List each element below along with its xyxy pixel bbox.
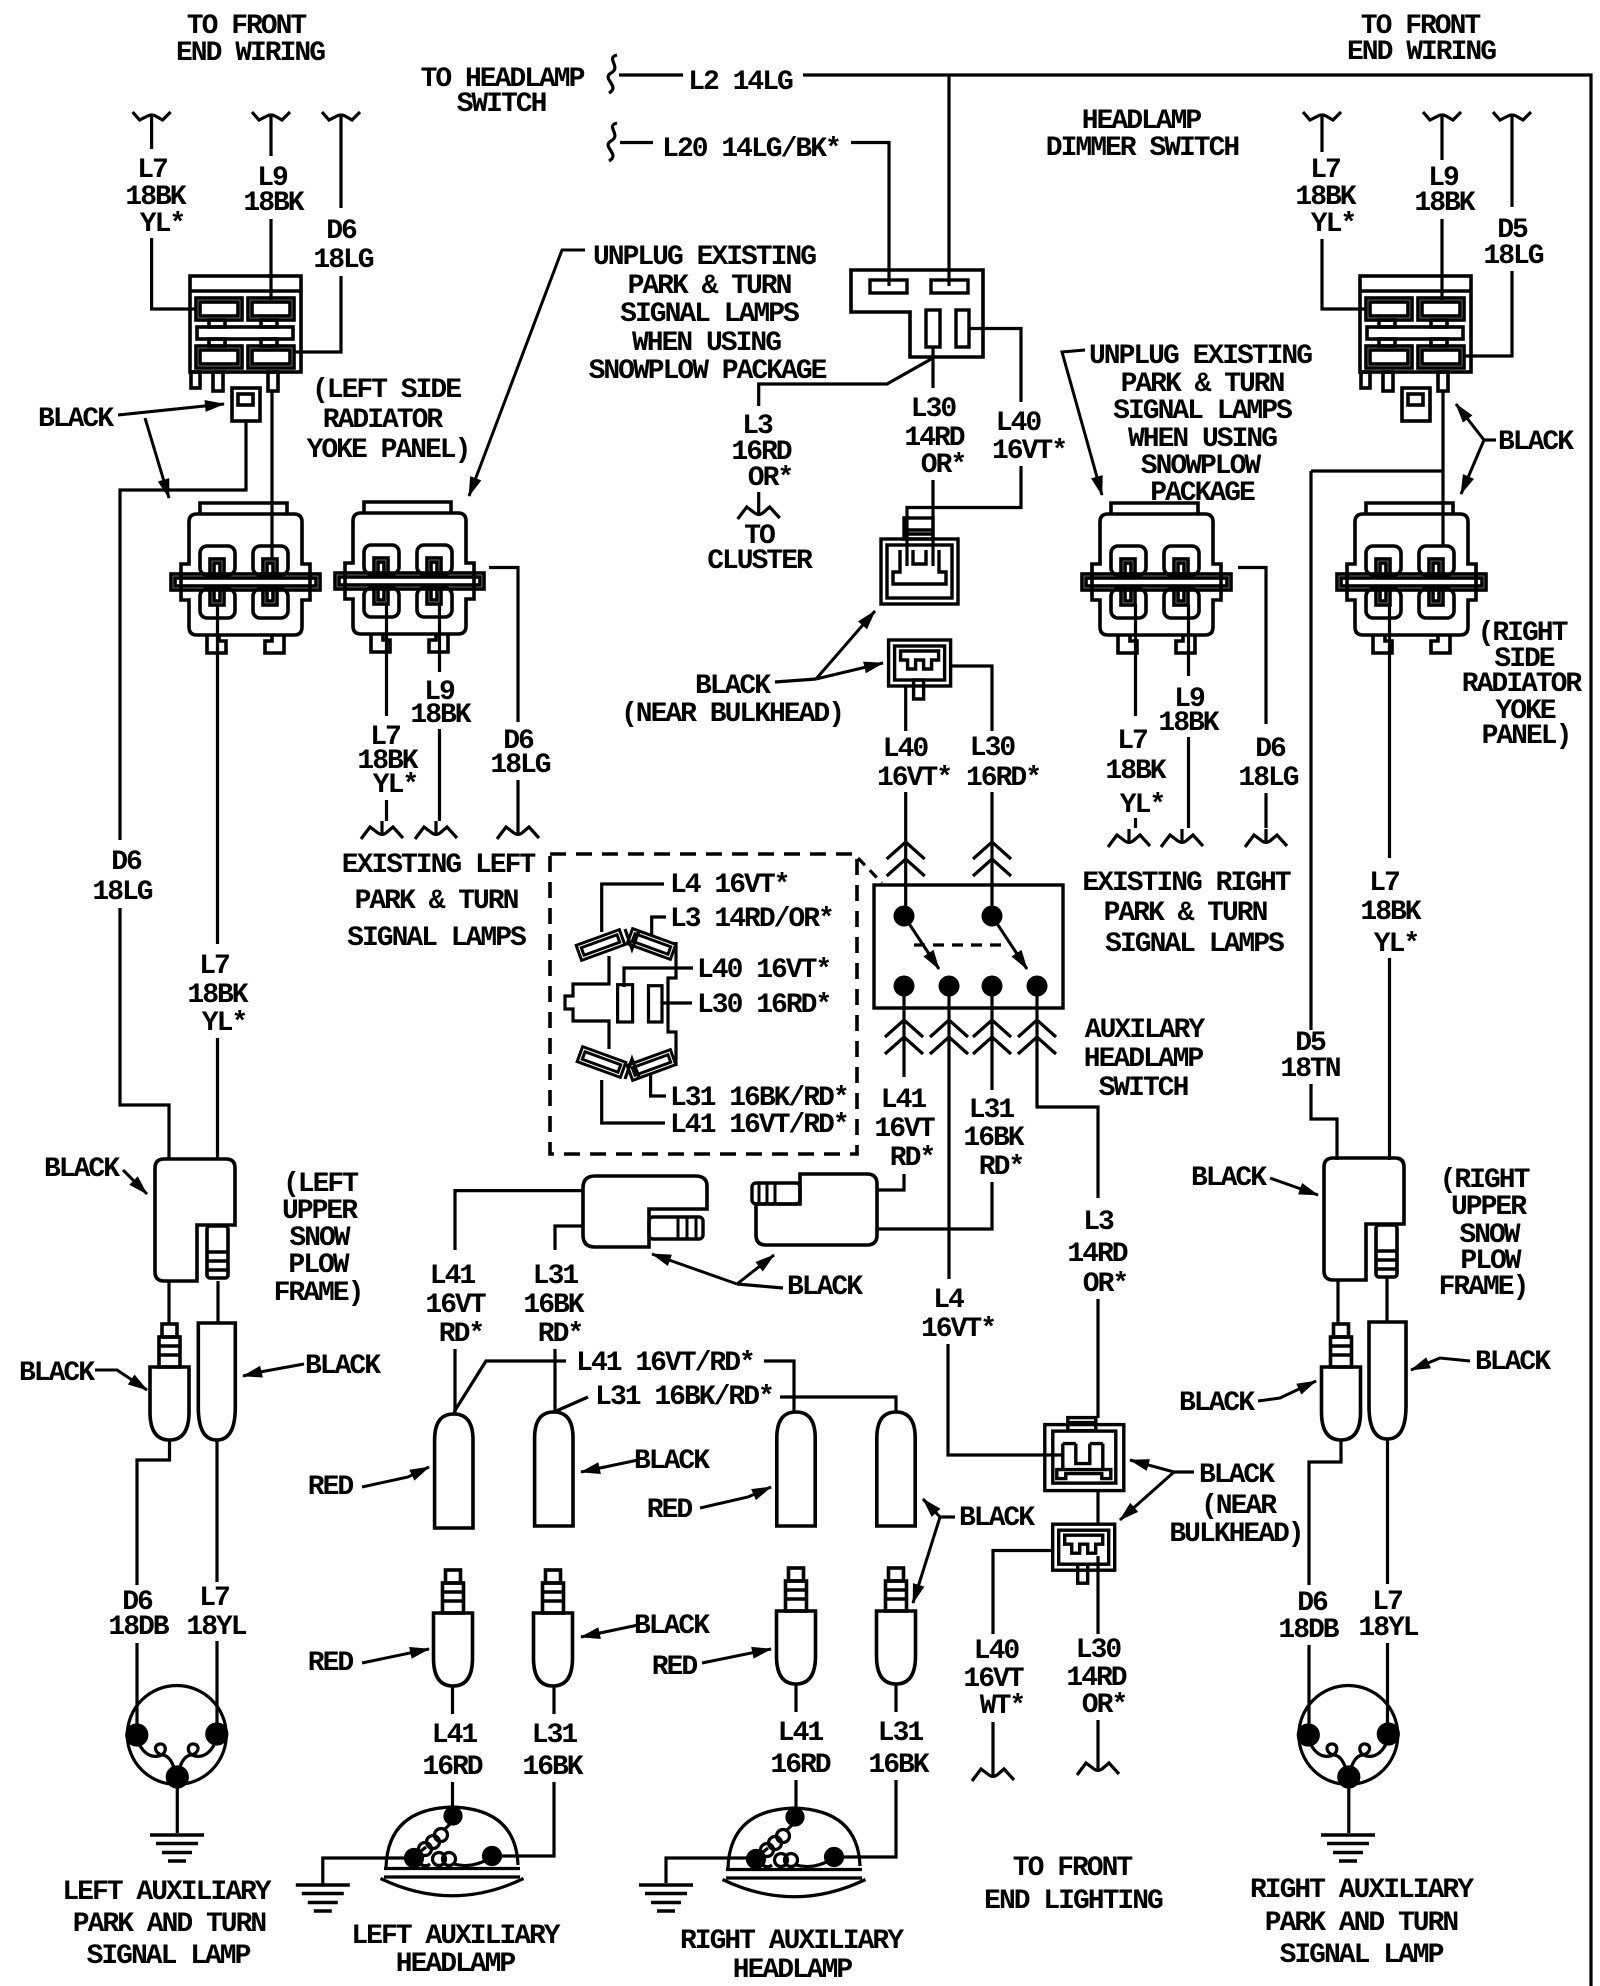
- wire to left female terminal: [216, 1281, 219, 1323]
- terminal female (right park/turn lamp L7): [1369, 1322, 1406, 1439]
- terminal blade L41 (tilted): [577, 1047, 626, 1078]
- svg-text:16BK: 16BK: [523, 1290, 584, 1321]
- svg-text:PLOW: PLOW: [288, 1250, 349, 1281]
- svg-text:18LG: 18LG: [1238, 763, 1298, 794]
- wire L2 14LG (left segment): [619, 73, 683, 76]
- connector plug P1 (snow plow harness, left): [583, 1176, 707, 1247]
- wire L7 stub: [1134, 818, 1137, 828]
- wire L9 into right bulkhead connector: [1440, 219, 1443, 300]
- wire L31 to plug P2: [877, 1182, 992, 1229]
- arrow BLACK to plug P2: [737, 1255, 774, 1284]
- svg-text:L41: L41: [778, 1718, 824, 1749]
- svg-text:PARK & TURN: PARK & TURN: [628, 271, 791, 302]
- arrow BLACK to plug M2: [581, 1625, 638, 1637]
- svg-text:18LG: 18LG: [92, 877, 152, 908]
- ground (right auxiliary headlamp): [639, 1885, 693, 1911]
- svg-text:HEADLAMP: HEADLAMP: [1084, 1044, 1204, 1075]
- wire L7 18YL: [215, 1440, 218, 1582]
- switch arm left: [904, 916, 939, 969]
- svg-text:L31 16BK/RD*: L31 16BK/RD*: [595, 1382, 773, 1413]
- in-line connector chevrons (L31): [973, 1020, 1011, 1054]
- wire L31 16BK/RD* (branch left): [554, 1397, 588, 1412]
- svg-text:RED: RED: [308, 1472, 354, 1503]
- wire L41 16VT RD* from switch: [902, 996, 905, 1077]
- wire L9 18BK (top left stub): [269, 128, 272, 156]
- svg-text:18YL: 18YL: [1358, 1613, 1418, 1644]
- right auxiliary park and turn signal lamp: [1298, 1686, 1398, 1788]
- connector (right upper snow plow frame): [1324, 1158, 1404, 1280]
- ground (right park/turn lamp): [1321, 1835, 1375, 1861]
- svg-text:(NEAR: (NEAR: [1201, 1491, 1277, 1522]
- svg-text:BLACK: BLACK: [695, 671, 771, 702]
- svg-text:SIGNAL LAMPS: SIGNAL LAMPS: [1113, 396, 1292, 427]
- svg-text:SWITCH: SWITCH: [1099, 1073, 1188, 1104]
- svg-text:OR*: OR*: [1082, 1690, 1126, 1721]
- connector near bulkhead (bottom lower): [1053, 1524, 1115, 1583]
- wire L3 down to near-bulkhead connector: [1096, 1299, 1099, 1418]
- svg-text:HEADLAMP: HEADLAMP: [733, 1955, 853, 1986]
- svg-text:D6: D6: [111, 847, 142, 878]
- wire right lamp to ground: [1347, 1787, 1350, 1833]
- svg-text:18BK: 18BK: [410, 700, 471, 731]
- svg-text:L7: L7: [1369, 868, 1399, 899]
- terminal blade L4 (tilted): [576, 930, 625, 961]
- svg-text:SWITCH: SWITCH: [457, 89, 546, 120]
- svg-text:PARK & TURN: PARK & TURN: [355, 886, 518, 917]
- svg-text:TO FRONT: TO FRONT: [1013, 1853, 1133, 1884]
- terminal male (left park/turn lamp D6): [150, 1324, 189, 1440]
- leader L31 16BK/RD*: [651, 1074, 666, 1096]
- connector face housing outline: [565, 929, 676, 1079]
- svg-text:16RD*: 16RD*: [966, 763, 1040, 794]
- svg-text:18BK: 18BK: [1158, 708, 1219, 739]
- wire D5 18TN down: [1309, 471, 1312, 1030]
- connector (left upper snow plow frame): [155, 1159, 235, 1281]
- svg-text:L31: L31: [969, 1095, 1015, 1126]
- wire-break (existing left lamps D6): [497, 821, 539, 839]
- svg-text:BLACK: BLACK: [44, 1154, 120, 1185]
- wire right headlamp to ground: [666, 1858, 754, 1883]
- wire L40 into near-bulkhead connector: [907, 466, 1021, 566]
- svg-text:BLACK: BLACK: [1475, 1347, 1551, 1378]
- svg-text:(NEAR BULKHEAD): (NEAR BULKHEAD): [621, 699, 843, 730]
- svg-text:L7: L7: [1117, 726, 1147, 757]
- wire L41 16VT/RD* (branch right): [764, 1361, 794, 1412]
- wire-break symbol (to front end wiring, L9): [252, 112, 290, 128]
- wire L30 stub: [1096, 1720, 1099, 1757]
- terminal socket S2 (L31 left): [535, 1412, 573, 1526]
- wire L41 to socket S1: [453, 1349, 456, 1414]
- svg-text:YL*: YL*: [1120, 790, 1164, 821]
- wire L9 stub: [438, 729, 441, 821]
- wire L41 16VT/RD* (branch left): [454, 1361, 566, 1412]
- svg-text:YL*: YL*: [140, 209, 184, 240]
- leader BLACK near bulkhead (bottom): [1174, 1470, 1194, 1473]
- wire-break symbol (to cluster): [738, 501, 780, 519]
- wire D6 stub: [1264, 793, 1267, 828]
- wire-break (to front end lighting L40): [972, 1763, 1014, 1781]
- terminal socket S4 (L31 right): [877, 1412, 915, 1526]
- left auxiliary park and turn signal lamp: [127, 1686, 227, 1788]
- wire L41 16RD to right headlamp: [794, 1780, 797, 1817]
- arrow RED to plug M3: [702, 1649, 771, 1663]
- wire-break (to front end lighting L30): [1077, 1757, 1119, 1775]
- svg-text:SIGNAL LAMPS: SIGNAL LAMPS: [1105, 929, 1284, 960]
- wire L30 into near-bulkhead connector: [931, 480, 934, 566]
- svg-text:L30: L30: [970, 733, 1016, 764]
- wire L7 stub: [385, 800, 388, 821]
- svg-text:OR*: OR*: [1083, 1269, 1127, 1300]
- right auxiliary headlamp: [723, 1808, 866, 1897]
- svg-text:RD*: RD*: [538, 1319, 582, 1350]
- wire M2 lead: [552, 1686, 555, 1714]
- wire L31 16BK RD* from P1: [555, 1226, 583, 1250]
- svg-text:L40: L40: [883, 734, 929, 765]
- svg-text:BLACK: BLACK: [1191, 1163, 1267, 1194]
- wire L4 to near-bulkhead connector (bottom): [948, 1344, 1062, 1455]
- wire L9 18BK into bulkhead connector: [269, 219, 272, 300]
- leader L41 16VT/RD*: [602, 1080, 665, 1123]
- arrow RED to socket S1: [362, 1467, 429, 1487]
- terminal slot L40: [618, 985, 633, 1022]
- arrow BLACK to socket S4: [923, 1499, 940, 1517]
- arrow BLACK to right snow plow connector: [1270, 1178, 1318, 1195]
- arrow BLACK to left female terminal: [243, 1364, 304, 1376]
- svg-text:CLUSTER: CLUSTER: [707, 546, 813, 577]
- svg-text:L30: L30: [911, 394, 957, 425]
- svg-text:RD*: RD*: [439, 1319, 483, 1350]
- wire D6 18DB to right lamp: [1307, 1645, 1310, 1735]
- svg-text:BLACK: BLACK: [38, 404, 114, 435]
- svg-text:RED: RED: [647, 1495, 693, 1526]
- wire L41 16RD to left headlamp: [451, 1782, 454, 1816]
- in-line connector chevrons (L3): [1018, 1020, 1056, 1054]
- wire D6 stub: [516, 780, 519, 821]
- svg-text:PARK & TURN: PARK & TURN: [1104, 898, 1267, 929]
- svg-text:18BK: 18BK: [1360, 897, 1421, 928]
- wire-break squiggle L2: [608, 55, 617, 93]
- svg-text:18LG: 18LG: [1483, 241, 1543, 272]
- wire to right male terminal: [1336, 1281, 1339, 1324]
- svg-text:L41 16VT/RD*: L41 16VT/RD*: [670, 1110, 848, 1141]
- svg-text:END WIRING: END WIRING: [1347, 37, 1496, 68]
- svg-text:L41: L41: [430, 1261, 476, 1292]
- svg-text:AUXILARY: AUXILARY: [1085, 1015, 1206, 1046]
- in-line connector chevrons (L4): [930, 1020, 968, 1054]
- svg-text:BLACK: BLACK: [787, 1272, 863, 1303]
- switch arm right: [992, 916, 1027, 969]
- wire L7 18BK YL* to left snow plow frame connector: [216, 1038, 219, 1160]
- connector C1 (left side radiator yoke panel): [171, 503, 320, 653]
- terminal socket S1 (L41 left): [435, 1414, 473, 1528]
- wire-break symbol (to front end wiring, D6): [322, 112, 360, 128]
- arrow to near-bulkhead connector upper: [816, 611, 875, 679]
- arrow BLACK to left male terminal: [95, 1370, 147, 1390]
- wire D6 18LG into bulkhead connector: [294, 276, 341, 352]
- svg-text:LEFT AUXILIARY: LEFT AUXILIARY: [62, 1877, 271, 1908]
- arrow BLACK to socket S2: [581, 1460, 638, 1472]
- svg-text:L4: L4: [933, 1285, 964, 1316]
- svg-text:HEADLAMP: HEADLAMP: [396, 1949, 516, 1980]
- wire D6 18DB to lamp: [135, 1643, 138, 1735]
- arrow BLACK to plug P1: [652, 1254, 737, 1284]
- wire M3 lead: [794, 1684, 797, 1712]
- svg-text:FRAME): FRAME): [274, 1278, 363, 1309]
- svg-text:16VT: 16VT: [425, 1290, 485, 1321]
- switch contact (lower L4): [939, 976, 960, 997]
- terminal blade L31 (tilted): [627, 1050, 676, 1081]
- svg-text:LEFT AUXILIARY: LEFT AUXILIARY: [351, 1921, 560, 1952]
- svg-text:L40: L40: [996, 408, 1042, 439]
- svg-text:EXISTING RIGHT: EXISTING RIGHT: [1082, 868, 1290, 899]
- switch contact (lower L3): [1027, 976, 1048, 997]
- svg-text:16RD: 16RD: [770, 1750, 830, 1781]
- svg-text:16VT*: 16VT*: [921, 1314, 995, 1345]
- svg-text:SNOWPLOW PACKAGE: SNOWPLOW PACKAGE: [589, 356, 827, 387]
- connector C3 (existing right park & turn signal lamps): [1082, 503, 1231, 653]
- connector plug P2 (snow plow harness, right): [756, 1174, 877, 1245]
- svg-text:OR*: OR*: [748, 463, 792, 494]
- wire L31 16BK/RD* (branch right): [780, 1397, 896, 1412]
- wire L3 to cluster stub: [757, 492, 760, 502]
- leader L4 16VT*: [602, 884, 664, 932]
- svg-text:RD*: RD*: [979, 1152, 1023, 1183]
- in-line connector chevrons (L30): [973, 842, 1011, 876]
- svg-text:SIGNAL LAMP: SIGNAL LAMP: [87, 1941, 251, 1972]
- terminal slot L30: [649, 986, 663, 1022]
- svg-text:BLACK: BLACK: [959, 1503, 1035, 1534]
- svg-text:L31: L31: [532, 1720, 578, 1751]
- wire-break (existing right lamps D6): [1245, 829, 1287, 847]
- switch dashed link: [914, 943, 1002, 946]
- terminal plug M2 (L31 16BK left): [534, 1570, 573, 1686]
- svg-text:18LG: 18LG: [313, 245, 373, 276]
- connector C4 (right side radiator yoke panel): [1337, 503, 1486, 653]
- svg-text:UNPLUG EXISTING: UNPLUG EXISTING: [1089, 341, 1312, 372]
- svg-text:L31: L31: [533, 1261, 579, 1292]
- bulkhead connector (right front end wiring): [1360, 276, 1471, 421]
- svg-text:DIMMER SWITCH: DIMMER SWITCH: [1046, 133, 1239, 164]
- svg-text:SIGNAL LAMP: SIGNAL LAMP: [1280, 1940, 1444, 1971]
- terminal plug M4 (L31 16BK right): [877, 1568, 916, 1684]
- svg-text:L4 16VT*: L4 16VT*: [670, 870, 788, 901]
- switch contact (lower L31): [982, 976, 1003, 997]
- leader BLACK near bulkhead: [775, 679, 816, 682]
- wire L40 16VT WT* from lower connector: [993, 1551, 1053, 1635]
- in-line connector chevrons (L41): [885, 1020, 923, 1054]
- arrow BLACK to right bulkhead sub-connector: [1456, 404, 1484, 440]
- wire L31 16BK to left headlamp: [493, 1782, 554, 1856]
- svg-text:16VT: 16VT: [874, 1114, 934, 1145]
- svg-text:SIGNAL LAMPS: SIGNAL LAMPS: [347, 923, 526, 954]
- wire L7 18BK YL* from C2: [385, 604, 388, 716]
- detail view dashed box (aux headlamp switch connector face): [550, 854, 857, 1154]
- svg-text:L30: L30: [1076, 1635, 1122, 1666]
- wire L3 between connectors: [1096, 1490, 1099, 1524]
- wire L7 18BK YL* into bulkhead connector: [152, 238, 196, 309]
- wire from right bulkhead tab to C4: [1441, 391, 1444, 546]
- arrow RED to plug M1: [362, 1649, 429, 1663]
- svg-text:SIGNAL LAMPS: SIGNAL LAMPS: [620, 299, 799, 330]
- svg-text:16VT*: 16VT*: [992, 436, 1066, 467]
- switch contact (upper L40): [894, 906, 915, 927]
- svg-text:RED: RED: [308, 1648, 354, 1679]
- wire L31 16BK to right headlamp: [836, 1780, 896, 1857]
- svg-text:L3: L3: [1083, 1207, 1114, 1238]
- wire L7 18BK YL* from C3: [1134, 604, 1137, 716]
- svg-text:(LEFT SIDE: (LEFT SIDE: [312, 375, 461, 406]
- svg-text:L2 14LG: L2 14LG: [688, 67, 793, 98]
- wire L20 14LG/BK* (left segment): [620, 141, 653, 144]
- svg-text:18LG: 18LG: [490, 750, 550, 781]
- svg-text:L31: L31: [878, 1718, 924, 1749]
- svg-text:L20 14LG/BK*: L20 14LG/BK*: [662, 134, 840, 165]
- svg-text:FRAME): FRAME): [1439, 1272, 1528, 1303]
- svg-text:18TN: 18TN: [1280, 1054, 1339, 1085]
- arrow BLACK to right female terminal: [1411, 1358, 1470, 1370]
- terminal blade L3 (tilted): [627, 929, 676, 960]
- wire L2 14LG to right edge and down: [803, 75, 1591, 1986]
- connector near bulkhead (lower): [889, 640, 951, 699]
- wire L7 18BK YL* from C1 down: [216, 604, 219, 944]
- svg-text:EXISTING LEFT: EXISTING LEFT: [342, 850, 536, 881]
- svg-text:18BK: 18BK: [187, 980, 248, 1011]
- bulkhead connector (left front end wiring): [190, 276, 301, 421]
- wire L9 stub: [1187, 737, 1190, 828]
- svg-text:PANEL): PANEL): [1482, 721, 1571, 752]
- svg-text:L3 14RD/OR*: L3 14RD/OR*: [670, 904, 833, 935]
- wire M4 lead: [894, 1684, 897, 1712]
- svg-text:16BK: 16BK: [963, 1123, 1024, 1154]
- wire L30 14RD OR* from dimmer: [931, 347, 934, 388]
- wire-break symbol (right, L9): [1423, 112, 1461, 128]
- arrow BLACK to plug M4: [913, 1517, 940, 1603]
- connector near bulkhead (bottom upper): [1045, 1418, 1124, 1491]
- connector near bulkhead (upper): [881, 518, 958, 604]
- wire L41 to plug P2: [877, 1174, 904, 1190]
- terminal female (left park/turn lamp L7): [198, 1323, 235, 1440]
- svg-text:L41 16VT/RD*: L41 16VT/RD*: [576, 1348, 754, 1379]
- dashed leader to aux headlamp switch: [858, 858, 882, 883]
- leader BLACK plug pair: [737, 1284, 783, 1288]
- wire L7 18YL to right lamp: [1386, 1643, 1389, 1735]
- wire D5 18TN to right snow plow frame connector: [1311, 1084, 1337, 1160]
- leader BLACK right bulkhead: [1484, 438, 1496, 441]
- wire L30 to aux switch: [990, 792, 993, 916]
- wire L2 14LG branch into dimmer switch: [947, 75, 950, 286]
- svg-text:L41: L41: [432, 1720, 478, 1751]
- svg-text:PARK AND TURN: PARK AND TURN: [1265, 1908, 1458, 1939]
- svg-text:L40: L40: [974, 1636, 1020, 1667]
- wire L3 16RD OR* from dimmer: [759, 358, 933, 406]
- wire L7 to right snow plow frame connector: [1388, 958, 1391, 1160]
- svg-text:RIGHT AUXILIARY: RIGHT AUXILIARY: [1250, 1875, 1474, 1906]
- wire-break squiggle L20: [608, 123, 617, 161]
- wire L7 18YL (right): [1386, 1439, 1389, 1584]
- wire L40 to aux switch: [904, 792, 907, 916]
- svg-text:RED: RED: [652, 1652, 698, 1683]
- svg-text:YOKE PANEL): YOKE PANEL): [307, 435, 470, 466]
- wire L20 14LG/BK* into dimmer switch: [851, 143, 889, 287]
- wire L41 16VT RD* from P1: [455, 1191, 583, 1250]
- svg-text:18DB: 18DB: [108, 1612, 169, 1643]
- ground (left auxiliary headlamp): [296, 1885, 350, 1911]
- arrow to bottom lower connector: [1120, 1472, 1174, 1520]
- svg-text:BLACK: BLACK: [1199, 1460, 1275, 1491]
- svg-text:18BK: 18BK: [1414, 188, 1475, 219]
- wire L7 18BK YL* from C4: [1388, 604, 1391, 858]
- leader L30 16RD*: [662, 1001, 692, 1004]
- wire D6 18LG from C2: [489, 568, 518, 723]
- connector C2 (existing left park & turn signal lamps): [335, 502, 484, 652]
- svg-text:RADIATOR: RADIATOR: [323, 405, 444, 436]
- wire L7 (right stub): [1320, 128, 1323, 152]
- arrow BLACK to right male terminal: [1258, 1381, 1316, 1401]
- arrow to near-bulkhead connector lower: [816, 663, 883, 679]
- wire L7 18BK YL* (top left stub): [150, 128, 153, 149]
- switch contact (upper L30): [982, 906, 1003, 927]
- svg-text:UPPER: UPPER: [1451, 1192, 1527, 1223]
- wire L7 into right bulkhead connector: [1322, 239, 1366, 309]
- arrow RED to socket S3: [700, 1487, 771, 1508]
- leader BLACK S4/M4: [940, 1515, 955, 1518]
- svg-text:YL*: YL*: [1311, 209, 1355, 240]
- svg-text:L30 16RD*: L30 16RD*: [697, 990, 830, 1021]
- svg-text:BLACK: BLACK: [1179, 1388, 1255, 1419]
- wire D6 18LG from C3: [1238, 568, 1266, 725]
- wire-break (existing right lamps L7): [1108, 829, 1150, 847]
- svg-text:YL*: YL*: [373, 770, 417, 801]
- leader L40 16VT*: [624, 968, 693, 987]
- arrow unplug-note to connector C2: [469, 250, 585, 496]
- wire L9 18BK from C2: [438, 604, 441, 672]
- wire L3 14RD OR* from switch: [1037, 996, 1098, 1198]
- svg-text:WT*: WT*: [980, 1691, 1024, 1722]
- terminal male (right park/turn lamp D6): [1322, 1324, 1361, 1440]
- svg-text:BLACK: BLACK: [305, 1351, 381, 1382]
- svg-text:L7: L7: [199, 951, 229, 982]
- wire L9 (right stub): [1440, 128, 1443, 160]
- wire-break symbol (right, L7): [1303, 112, 1341, 128]
- wire to right female terminal: [1385, 1278, 1388, 1322]
- terminal plug M1 (L41 16RD left): [434, 1570, 473, 1686]
- svg-text:YL*: YL*: [1374, 929, 1418, 960]
- arrow to bottom upper connector: [1130, 1460, 1174, 1472]
- wire L30 14RD OR* below connector: [1096, 1556, 1099, 1634]
- svg-text:UNPLUG EXISTING: UNPLUG EXISTING: [593, 242, 816, 273]
- in-line connector chevrons (L40): [887, 842, 925, 876]
- svg-text:END WIRING: END WIRING: [176, 38, 325, 69]
- wire-break (existing left lamps L9): [415, 821, 457, 839]
- arrow BLACK to left snow plow connector: [123, 1170, 147, 1194]
- arrow unplug-note to connector C3: [1062, 350, 1102, 495]
- left auxiliary headlamp: [381, 1807, 524, 1896]
- wire L31 to socket S2: [553, 1349, 556, 1412]
- wire L9 18BK from C3: [1187, 604, 1190, 676]
- svg-text:18BK: 18BK: [1105, 756, 1166, 787]
- svg-text:RD*: RD*: [890, 1143, 934, 1174]
- arrow BLACK to bulkhead sub-connector: [118, 404, 224, 415]
- svg-text:RIGHT AUXILIARY: RIGHT AUXILIARY: [680, 1926, 904, 1957]
- wire-break symbol (right, D5): [1493, 112, 1531, 128]
- svg-text:16BK: 16BK: [868, 1750, 929, 1781]
- svg-text:14RD: 14RD: [1067, 1239, 1127, 1270]
- terminal plug M3 (L41 16RD right): [777, 1568, 816, 1684]
- wire left headlamp to ground: [323, 1858, 414, 1884]
- leader L3 14RD/OR*: [652, 917, 666, 936]
- wire-break (existing left lamps L7): [361, 821, 403, 839]
- wire L4 16VT* from switch: [947, 996, 950, 1279]
